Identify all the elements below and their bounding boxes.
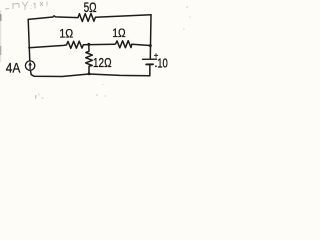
svg-text:4A: 4A [6, 59, 21, 75]
svg-text:12Ω: 12Ω [93, 56, 112, 70]
svg-text:5Ω: 5Ω [84, 0, 97, 15]
svg-text:10: 10 [157, 57, 168, 71]
svg-text:1Ω: 1Ω [112, 28, 126, 40]
svg-text:1Ω: 1Ω [59, 29, 73, 41]
